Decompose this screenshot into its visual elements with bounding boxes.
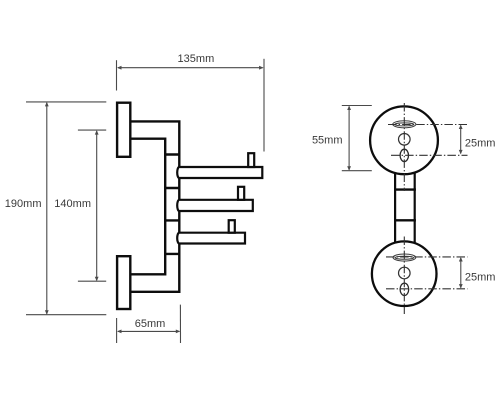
wall plate bottom (side view)	[117, 256, 130, 309]
dimension 190mm (overall height)	[26, 102, 106, 315]
dimension 135mm (top width)	[117, 59, 265, 152]
hook peg 2	[238, 187, 244, 200]
svg-text:25mm: 25mm	[465, 137, 496, 149]
keyhole slot bottom plate	[393, 254, 416, 261]
label 25mm bottom	[465, 271, 496, 283]
svg-text:140mm: 140mm	[54, 198, 91, 210]
label 55mm	[312, 135, 343, 147]
centerline slot top (top plate)	[388, 124, 468, 126]
dimension 65mm (bottom depth)	[117, 305, 181, 343]
svg-text:65mm: 65mm	[135, 318, 166, 330]
screw hole bottom plate	[399, 267, 411, 279]
label 65mm	[135, 318, 166, 330]
screw slot lower (top plate)	[400, 149, 408, 161]
svg-text:190mm: 190mm	[5, 198, 42, 210]
centerline slot bottom (top plate)	[391, 154, 468, 156]
screw slot lower (bottom plate)	[400, 283, 409, 295]
wall plate top (side view)	[117, 103, 130, 157]
hook peg 1	[248, 153, 254, 167]
dimension 25mm (top slot spacing)	[459, 125, 463, 155]
label 140mm	[54, 198, 91, 210]
hook peg 3	[229, 220, 235, 233]
svg-text:55mm: 55mm	[312, 135, 343, 147]
round wall plate bottom (front view)	[372, 241, 437, 306]
pivot joint line 1	[164, 153, 181, 155]
svg-text:135mm: 135mm	[178, 53, 215, 65]
dimension 140mm (plate spacing)	[78, 130, 106, 281]
swivel arm 1 (top, side view)	[177, 167, 262, 178]
round wall plate top (front view)	[370, 106, 438, 174]
centerline slot top (bottom plate)	[386, 256, 468, 258]
vertical centerline (front view)	[403, 103, 405, 314]
label 190mm	[5, 198, 42, 210]
swivel arm 3 (bottom, side view)	[177, 233, 245, 244]
dimension 55mm (plate diameter)	[342, 106, 372, 171]
centerline slot bottom (bottom plate)	[386, 288, 468, 290]
label 25mm top	[465, 137, 496, 149]
connecting post between plates (front view)	[395, 166, 415, 246]
screw hole top plate	[399, 134, 411, 146]
dimension 25mm (bottom slot spacing)	[459, 257, 463, 289]
post joint line A	[394, 188, 416, 190]
pivot joint line 2	[164, 187, 181, 189]
pivot joint line 4	[164, 253, 181, 255]
swivel arm 2 (middle, side view)	[177, 200, 253, 211]
bracket body with vertical pivot bar (side view)	[130, 121, 179, 291]
svg-text:25mm: 25mm	[465, 271, 496, 283]
keyhole slot top plate	[393, 121, 416, 128]
label 135mm	[178, 53, 215, 65]
pivot joint line 3	[164, 219, 181, 221]
post joint line B	[394, 219, 416, 221]
